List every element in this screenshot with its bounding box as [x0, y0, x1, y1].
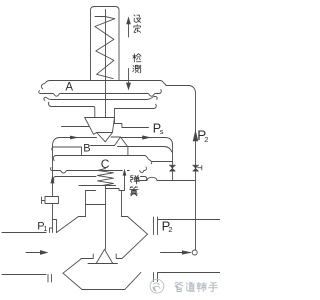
svg-text:C: C: [101, 157, 110, 171]
svg-text:2: 2: [168, 225, 172, 234]
svg-text:A: A: [65, 81, 73, 93]
svg-text:2: 2: [204, 135, 208, 144]
svg-text:1: 1: [44, 226, 48, 233]
svg-text:s: s: [160, 127, 164, 136]
svg-text:B: B: [83, 143, 90, 155]
